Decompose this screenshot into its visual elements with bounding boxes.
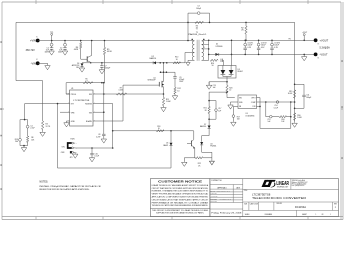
svg-text:+VOUT: +VOUT: [302, 32, 307, 34]
svg-text:REV: REV: [334, 203, 337, 205]
svg-text:E4: E4: [318, 58, 320, 60]
resistor R9: [103, 40, 112, 83]
resistor R21 chain: [204, 91, 228, 120]
transistor Q2: [81, 40, 93, 64]
wire vin row: [66, 82, 104, 84]
svg-text:D6: D6: [166, 143, 168, 145]
capacitor C3 snubber loop: [187, 6, 210, 24]
capacitor COUT3: [270, 40, 280, 56]
capacitor C7: [99, 62, 111, 74]
svg-text:1uF: 1uF: [218, 110, 221, 112]
capacitor C4: [26, 125, 35, 129]
svg-text:DWG NO: DWG NO: [277, 203, 282, 205]
test point TP1: [50, 32, 53, 41]
svg-text:U1: U1: [71, 88, 73, 90]
resistor R6: [74, 40, 82, 60]
svg-text:2.2uF: 2.2uF: [30, 128, 34, 130]
svg-text:100pF: 100pF: [306, 97, 312, 99]
svg-text:JP1: JP1: [69, 157, 72, 159]
resistor R20: [226, 85, 233, 93]
ground divider: [292, 123, 298, 127]
wire opto feed: [209, 82, 235, 98]
svg-text:+VIN: +VIN: [30, 39, 36, 43]
svg-text:5.3V@5A: 5.3V@5A: [320, 46, 331, 49]
svg-text:TITLE: TITLE: [244, 190, 248, 192]
svg-text:TP1: TP1: [50, 32, 53, 34]
svg-text:100pF: 100pF: [196, 8, 201, 10]
svg-text:402K: 402K: [74, 49, 79, 51]
svg-text:BAS516: BAS516: [150, 57, 157, 60]
svg-text:10.0K: 10.0K: [288, 93, 293, 95]
resistor R3 on clamp rail: [195, 21, 204, 29]
svg-text:10: 10: [176, 59, 178, 61]
ground isolated: [209, 158, 214, 165]
svg-text:12.7K: 12.7K: [46, 126, 51, 128]
transistor Q1 MOSFET: [148, 77, 165, 87]
svg-text:49.9K: 49.9K: [107, 51, 113, 53]
svg-text:DESIGNER: DESIGNER: [211, 201, 218, 203]
terminal E4 -VOUT: [314, 53, 328, 60]
resistor R16: [293, 113, 302, 121]
svg-text:E2: E2: [36, 59, 38, 61]
svg-text:INSTALL 2200pF/250VAC CAPACITO: INSTALL 2200pF/250VAC CAPACITOR IN PLACE…: [40, 185, 102, 188]
capacitor C17: [209, 101, 221, 120]
svg-text:RESISTOR R19 IN ISOLATED APPLI: RESISTOR R19 IN ISOLATED APPLICATIONS.: [40, 188, 90, 191]
svg-text:1000pF: 1000pF: [104, 67, 111, 69]
terminal E1 +VIN: [26, 36, 40, 52]
svg-text:100V: 100V: [44, 51, 49, 53]
svg-text:10: 10: [229, 90, 231, 92]
resistor R7: [116, 87, 126, 95]
ground jumper: [72, 152, 78, 158]
customer notice box: [150, 179, 210, 217]
wire secondary top: [202, 39, 203, 42]
svg-text:+VOUT: +VOUT: [320, 39, 329, 43]
svg-text:COMP: COMP: [251, 102, 256, 104]
svg-text:CHECKED: CHECKED: [211, 193, 217, 195]
resistor R14 diode snubber: [210, 59, 223, 68]
ground U1 GND pin: [64, 121, 70, 127]
wire secondary bottom: [202, 40, 209, 60]
terminal E2 -VIN: [31, 59, 40, 65]
logo Linear Technology: [262, 179, 308, 188]
op-amp U1 LTC3873 controller: [70, 88, 93, 126]
pin stubs U1: [25, 94, 123, 121]
capacitor C8: [96, 134, 106, 143]
diode D2: [150, 56, 157, 64]
svg-text:LTC3873ETS8: LTC3873ETS8: [73, 100, 90, 102]
ground output: [301, 54, 307, 61]
svg-text:RUN/SS: RUN/SS: [85, 104, 93, 106]
svg-text:CUSTOMER NOTICE: CUSTOMER NOTICE: [158, 179, 202, 183]
wire gate route: [123, 85, 159, 121]
ground U3 gnd: [228, 102, 238, 109]
wire lower feedback loop: [58, 131, 194, 168]
wire D5 top pins: [231, 40, 233, 65]
svg-text:Michele Palermo 1-29-08: Michele Palermo 1-29-08: [217, 191, 231, 193]
svg-text:SIZE: SIZE: [244, 203, 247, 205]
capacitor C15: [267, 115, 272, 123]
svg-text:ENGINEER: ENGINEER: [211, 199, 218, 201]
diode D7: [200, 119, 211, 128]
wire sense row: [97, 93, 164, 95]
svg-text:SW: SW: [89, 94, 92, 96]
capacitor C2: [58, 40, 68, 55]
svg-text:0.1uF: 0.1uF: [274, 107, 278, 109]
svg-text:1uF: 1uF: [213, 87, 216, 89]
svg-text:Si7850DP: Si7850DP: [148, 80, 157, 82]
wire to opto LED: [202, 129, 209, 142]
diode D5 dual rectifier: [218, 66, 244, 82]
svg-text:2.2: 2.2: [85, 81, 87, 83]
wire primary tap: [185, 53, 194, 63]
resistor R19: [15, 138, 22, 143]
wire drain: [163, 63, 165, 94]
svg-text:1.00K: 1.00K: [166, 101, 171, 103]
capacitor C10: [89, 147, 100, 162]
capacitor COUT2: [257, 40, 267, 56]
ground opto emitter: [182, 158, 188, 167]
resistor R8A: [26, 136, 35, 142]
wire opto emitter row: [184, 157, 212, 159]
resistor R11 sense: [161, 94, 172, 112]
wire return rail: [209, 53, 316, 55]
svg-text:240: 240: [15, 141, 18, 143]
resistor R2: [241, 22, 247, 41]
svg-text:10: 10: [177, 90, 179, 92]
resistor R15: [288, 90, 296, 98]
wire -VIN: [38, 62, 48, 64]
wire input rail: [38, 40, 195, 42]
svg-text:36V-72V: 36V-72V: [26, 49, 36, 52]
capacitor C1: [44, 41, 54, 56]
wire comp row: [257, 101, 295, 103]
wire fb left: [20, 104, 28, 146]
node drain bracket: [160, 71, 176, 73]
capacitor COUT1: [244, 40, 254, 56]
test point TP3: [302, 32, 307, 41]
wire run jumper: [75, 147, 113, 149]
wire to U1 pin1: [66, 83, 70, 94]
resistor R12 snubber: [172, 87, 180, 100]
svg-text:1.00K: 1.00K: [297, 117, 302, 119]
resistor R22: [196, 157, 204, 168]
svg-text:BAS516: BAS516: [200, 125, 206, 128]
svg-text:B540C: B540C: [238, 71, 244, 73]
title block: [210, 179, 339, 217]
svg-text:LT4430ES6: LT4430ES6: [246, 116, 255, 118]
resistor R18: [279, 116, 286, 124]
resistor R5: [83, 78, 93, 83]
svg-text:UPS840: UPS840: [216, 46, 223, 48]
svg-text:E1: E1: [36, 36, 38, 38]
wire opto row: [257, 98, 291, 129]
svg-text:PA0184_Rev0.1: PA0184_Rev0.1: [189, 33, 207, 36]
svg-text:TELECOM DC/DC CONVERTER: TELECOM DC/DC CONVERTER: [252, 196, 306, 200]
svg-text:-VIN: -VIN: [31, 62, 36, 66]
svg-text:NGATE: NGATE: [86, 120, 93, 123]
svg-text:PS2801: PS2801: [210, 146, 216, 148]
svg-text:TP4: TP4: [288, 39, 291, 41]
svg-text:100V: 100V: [58, 51, 63, 53]
winding taps: [202, 44, 209, 49]
capacitor C9 snubber: [173, 72, 185, 87]
wire clamp to rail: [187, 22, 189, 40]
svg-text:PROG: PROG: [71, 94, 77, 96]
svg-text:10: 10: [212, 65, 214, 67]
ground opto feed: [206, 82, 215, 90]
resistor R10: [173, 57, 180, 64]
jumper JP1 RUN: [61, 139, 77, 159]
wire output rail: [203, 39, 316, 41]
wire clamp top rail: [16, 22, 295, 80]
terminal E3 +VOUT: [314, 38, 330, 49]
svg-text:E3: E3: [318, 44, 320, 46]
wire vin left rail down: [57, 104, 59, 168]
svg-text:0.033: 0.033: [119, 90, 123, 92]
diode D1: [215, 44, 222, 56]
svg-text:OF: OF: [322, 214, 324, 216]
svg-text:GND: GND: [71, 121, 76, 123]
capacitor C11: [295, 84, 313, 108]
diode D6: [163, 143, 172, 147]
svg-text:10: 10: [158, 128, 160, 130]
resistor R4: [40, 81, 51, 137]
svg-text:TECHNOLOGY: TECHNOLOGY: [277, 187, 289, 189]
svg-text:2.2nF: 2.2nF: [96, 136, 100, 138]
note text: [40, 181, 102, 191]
ground left RC: [21, 145, 27, 152]
wire comp rc loop: [266, 102, 291, 128]
wire clamp row: [82, 62, 185, 64]
svg-text:1uF: 1uF: [267, 121, 270, 123]
resistor R13: [157, 126, 165, 132]
op-amp U4 optocoupler: [187, 131, 216, 158]
ground -VIN: [45, 63, 51, 69]
wire feedback vertical: [294, 22, 296, 122]
wire run/ss down: [112, 104, 114, 148]
zener D3: [72, 63, 85, 72]
ground primary return: [186, 60, 195, 65]
svg-text:SHEET: SHEET: [302, 214, 307, 216]
svg-text:DC1154A: DC1154A: [295, 205, 306, 209]
transformer T1: [189, 28, 207, 61]
op-amp U3 LT4430: [238, 95, 257, 118]
resistor R17: [231, 106, 241, 126]
svg-text:OPTO: OPTO: [251, 97, 256, 99]
wire comp vertical: [103, 83, 105, 134]
svg-text:NOTES:: NOTES:: [40, 181, 49, 183]
svg-text:RUN: RUN: [71, 139, 76, 141]
svg-text:FB: FB: [239, 106, 241, 108]
svg-text:Fax: (408)434-0507: Fax: (408)434-0507: [292, 185, 305, 187]
capacitor C14: [274, 101, 279, 110]
svg-text:-VOUT: -VOUT: [320, 53, 328, 57]
